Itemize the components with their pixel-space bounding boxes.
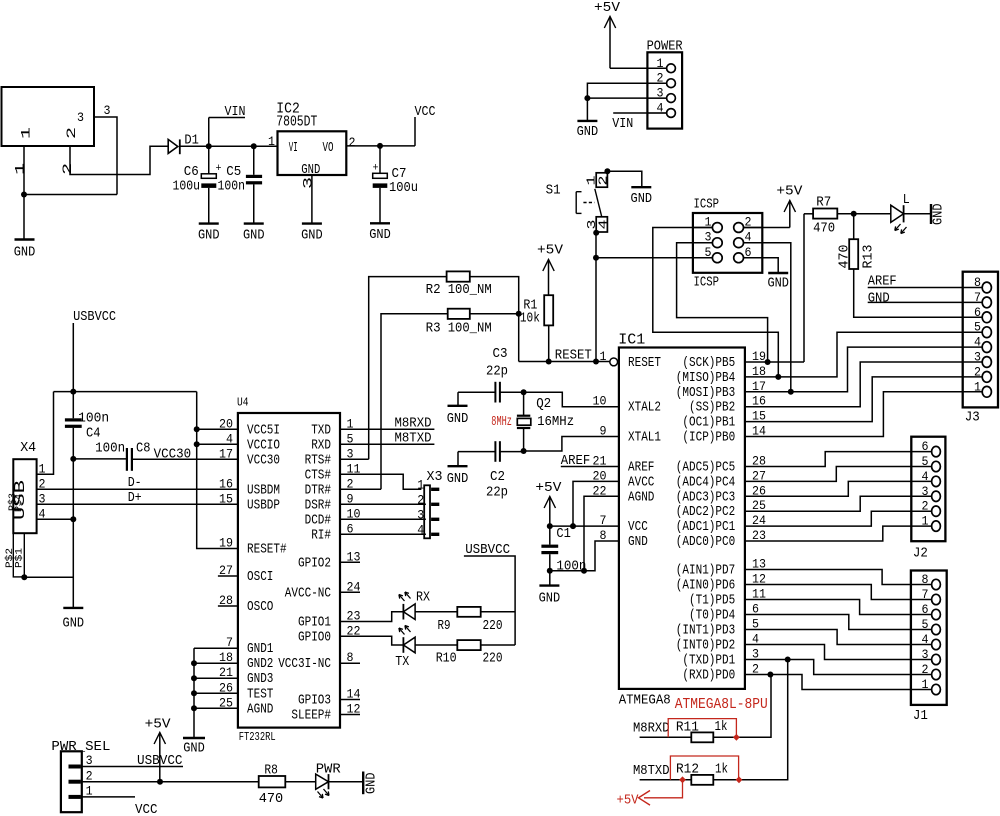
LED PWR — [316, 762, 342, 799]
wire LED L to GND — [904, 213, 931, 215]
power symbol +5V at R1 — [537, 243, 564, 296]
svg-text:TEST: TEST — [247, 687, 273, 702]
svg-text:100_NM: 100_NM — [448, 321, 492, 337]
svg-text:7: 7 — [922, 587, 929, 602]
connector POWER — [647, 39, 684, 129]
junction dot — [785, 657, 791, 663]
wire PWR LED to GND — [329, 781, 364, 783]
svg-text:6: 6 — [974, 305, 981, 320]
wire U4 GND3 — [194, 677, 238, 679]
svg-text:4: 4 — [922, 469, 929, 484]
junction dot — [191, 690, 197, 696]
junction dot — [516, 311, 522, 317]
svg-text:RESET: RESET — [555, 348, 592, 364]
wire U4 GPIO2 stub — [340, 561, 360, 563]
wire XTAL2 node to IC1 pin10 — [524, 392, 619, 407]
connector J3 — [963, 272, 998, 426]
wire U4 AGND — [194, 707, 238, 709]
svg-text:GND: GND — [63, 616, 85, 632]
junction dot — [593, 255, 599, 261]
svg-text:(MOSI)PB3: (MOSI)PB3 — [676, 386, 735, 401]
wire IC1 PD3 to J1 pin4 — [745, 630, 932, 645]
svg-text:5: 5 — [922, 454, 929, 469]
wire R12 to IC1 PD1 — [713, 660, 787, 780]
junction dot — [70, 456, 76, 462]
svg-text:GND: GND — [364, 773, 380, 795]
junction dot — [21, 574, 27, 580]
ground symbol X4 — [63, 607, 83, 609]
svg-text:GND: GND — [243, 228, 265, 244]
junction dot — [547, 523, 553, 529]
svg-text:1: 1 — [922, 677, 929, 692]
wire X4 pin4 to GND rail — [37, 518, 74, 520]
svg-text:100_NM: 100_NM — [448, 282, 492, 298]
svg-text:R2: R2 — [426, 282, 441, 298]
wire U4 TEST — [194, 692, 238, 694]
svg-text:2: 2 — [64, 127, 79, 139]
wire R13 to J3 pin6 — [854, 269, 983, 317]
junction dot — [570, 523, 576, 529]
svg-text:+5V: +5V — [145, 717, 172, 733]
junction dot — [191, 675, 197, 681]
svg-text:(ADC3)PC3: (ADC3)PC3 — [676, 490, 735, 505]
svg-text:8: 8 — [922, 572, 929, 587]
svg-text:GND: GND — [301, 228, 323, 244]
red junction dot — [736, 776, 743, 783]
red jumper wire at R11 — [668, 719, 736, 738]
wire IC1 pin18 MISO to J3 pin5 — [745, 332, 982, 377]
wire ICSP pin2 to +5V — [744, 227, 790, 229]
junction dot — [21, 192, 27, 198]
wire USBVCC gnd rail down — [72, 459, 74, 608]
svg-text:6: 6 — [922, 439, 929, 454]
svg-text:M8TXD: M8TXD — [395, 431, 432, 447]
svg-text:(TXD)PD1: (TXD)PD1 — [682, 654, 735, 669]
svg-text:(T0)PD4: (T0)PD4 — [689, 609, 735, 624]
svg-text:DCD#: DCD# — [305, 513, 331, 528]
wire IC1 VCC pin7 — [550, 525, 619, 527]
wire ICSP pin5 to RESET — [596, 257, 712, 259]
svg-text:RX: RX — [416, 590, 430, 606]
resistor R10 220 — [436, 640, 503, 666]
ground symbol C3 — [447, 392, 469, 427]
svg-text:VO: VO — [323, 141, 334, 156]
wire PWR_SEL pin2 to R8 — [81, 781, 259, 783]
svg-text:7: 7 — [974, 290, 981, 305]
wire R3 to junction — [470, 313, 519, 315]
wire U4 AVCC-NC stub — [340, 591, 360, 593]
svg-text:Q2: Q2 — [536, 396, 551, 412]
net label M8TXD at R12 — [633, 763, 691, 780]
svg-text:1: 1 — [657, 56, 664, 71]
connector J1 — [911, 571, 947, 725]
svg-text:GND: GND — [628, 535, 648, 550]
svg-text:GND: GND — [369, 227, 391, 243]
ground symbol POWER — [577, 120, 597, 122]
wire U4 RI# to X3 pin4 — [340, 533, 426, 535]
svg-text:100u: 100u — [173, 179, 201, 195]
wire U4 gnd rail — [193, 648, 195, 738]
wire +5V to POWER pin1 — [610, 67, 667, 69]
svg-text:3: 3 — [104, 103, 111, 118]
svg-text:3: 3 — [77, 110, 84, 125]
connector X3 — [417, 469, 442, 538]
capacitor C7 100u — [373, 146, 419, 223]
svg-text:GND: GND — [868, 291, 890, 307]
svg-text:(ADC1)PC1: (ADC1)PC1 — [676, 520, 735, 535]
net label M8RXD at U4 TXD — [340, 416, 434, 432]
junction dot — [584, 95, 590, 101]
svg-text:(RXD)PD0: (RXD)PD0 — [682, 669, 735, 684]
svg-text:GND2: GND2 — [247, 657, 273, 672]
ground symbol U4 — [183, 737, 205, 739]
microcontroller IC1 ATMEGA8 — [593, 332, 767, 709]
svg-text:GND: GND — [767, 276, 789, 292]
svg-text:GPIO2: GPIO2 — [298, 556, 331, 571]
svg-text:22: 22 — [593, 483, 607, 498]
svg-text:(T1)PD5: (T1)PD5 — [689, 594, 735, 609]
svg-text:(ADC2)PC2: (ADC2)PC2 — [676, 505, 735, 520]
wire IC1 PC3 to J2 pin4 — [745, 481, 932, 496]
wire SCK rail up to R7 — [803, 214, 805, 362]
svg-text:10: 10 — [593, 394, 607, 409]
svg-text:AVCC-NC: AVCC-NC — [285, 586, 331, 601]
wire U4 DTR# up to R3 — [381, 314, 448, 490]
svg-text:6: 6 — [922, 602, 929, 617]
svg-text:M8RXD: M8RXD — [395, 416, 432, 432]
junction dot S1 top — [604, 168, 610, 174]
svg-text:1: 1 — [417, 477, 424, 492]
resistor R7 470 — [804, 195, 837, 237]
svg-text:D-: D- — [128, 475, 142, 491]
capacitor C5 100n — [218, 146, 263, 223]
wire U4 OSCO stub — [218, 605, 238, 607]
wire D1 to IC2 VI — [181, 145, 278, 147]
svg-text:(INT0)PD2: (INT0)PD2 — [676, 639, 735, 654]
red +5V arrow — [639, 791, 651, 806]
ground symbol ICSP — [768, 272, 788, 274]
wire USBVCC rail to U4 RESET# — [197, 392, 238, 549]
wire X4 shield to GND — [24, 576, 73, 578]
ground symbol (rotated) at PWR LED — [363, 772, 379, 795]
svg-text:USBVCC: USBVCC — [73, 309, 116, 325]
power symbol +5V at PWR_SEL — [145, 717, 172, 782]
svg-text:PWR: PWR — [316, 762, 342, 778]
wire U4 VCC3I-NC stub — [340, 662, 360, 664]
junction dot — [767, 672, 773, 678]
net label VIN — [209, 104, 246, 146]
junction dot — [581, 568, 587, 574]
svg-text:(ICP)PB0: (ICP)PB0 — [682, 431, 735, 446]
wire IC1 pin19 SCK row — [745, 361, 804, 363]
svg-text:(AIN1)PD7: (AIN1)PD7 — [676, 564, 735, 579]
svg-text:16MHz: 16MHz — [537, 414, 574, 430]
svg-text:+5V: +5V — [537, 243, 564, 259]
red jumper wire at R12 — [670, 756, 738, 780]
wire XTAL1 node to IC1 pin9 — [524, 437, 619, 452]
junction dot — [546, 359, 552, 365]
junction dot — [377, 143, 383, 149]
svg-text:4: 4 — [597, 220, 611, 230]
svg-text:8MHz: 8MHz — [491, 414, 512, 430]
power symbol +5V top — [594, 0, 621, 68]
svg-text:(OC1)PB1: (OC1)PB1 — [682, 416, 735, 431]
capacitor C4 100n — [65, 392, 109, 459]
svg-text:J2: J2 — [913, 546, 928, 562]
wire IC2 VO to VCC — [346, 145, 415, 147]
wire R1 to RESET net — [548, 325, 550, 361]
svg-text:GND: GND — [301, 163, 320, 178]
wire U4 RTS# stub — [340, 458, 369, 460]
junction dot — [521, 448, 527, 454]
svg-text:GND: GND — [447, 411, 469, 427]
wire S1 to RESET net — [595, 233, 597, 362]
wire IC1 PD7 to J1 pin8 — [745, 570, 932, 585]
svg-text:VI: VI — [289, 141, 298, 156]
wire X1 junction horizontal — [24, 194, 117, 196]
ground symbol C1 — [539, 584, 559, 586]
junction dot node VIN — [206, 143, 212, 149]
resistor R9 220 — [438, 607, 503, 634]
wire S1 top to GND — [607, 171, 641, 187]
svg-text:VCC5I: VCC5I — [247, 423, 280, 438]
svg-text:3: 3 — [974, 350, 981, 365]
wire U4 VCC5I — [197, 428, 238, 430]
IC1 pin1 inversion circle — [610, 358, 618, 366]
power symbol +5V at ICSP pin2 — [776, 184, 803, 228]
svg-text:100n: 100n — [556, 559, 586, 575]
wire R11 to IC1 PD0 — [713, 675, 771, 738]
svg-text:USBDP: USBDP — [247, 498, 280, 513]
wire RESET net — [519, 361, 610, 363]
svg-text:GPIO0: GPIO0 — [298, 630, 331, 645]
red junction dot — [733, 734, 740, 741]
wire U4 GPIO0 to TX LED — [340, 636, 403, 645]
svg-text:(SCK)PB5: (SCK)PB5 — [682, 356, 735, 371]
svg-text:IC1: IC1 — [618, 332, 645, 349]
wire R9 to USBVCC rail — [481, 611, 515, 613]
svg-text:VIN: VIN — [612, 116, 633, 132]
svg-text:(INT1)PD3: (INT1)PD3 — [676, 624, 735, 639]
svg-text:20: 20 — [593, 468, 607, 483]
wire R2 to RESET net — [470, 277, 519, 362]
svg-text:AGND: AGND — [247, 702, 273, 717]
svg-text:P$1: P$1 — [13, 548, 25, 568]
net label VCC at PWR_SEL pin1 — [81, 797, 158, 816]
svg-text:7: 7 — [600, 513, 607, 528]
svg-text:5: 5 — [922, 617, 929, 632]
connector ICSP — [693, 197, 762, 291]
svg-text:1k: 1k — [715, 719, 728, 735]
svg-text:2: 2 — [974, 364, 981, 379]
svg-text:X4: X4 — [20, 440, 36, 456]
svg-text:AGND: AGND — [628, 490, 654, 505]
svg-text:TXD: TXD — [311, 423, 331, 438]
svg-text:J3: J3 — [965, 410, 980, 426]
svg-text:VCCIO: VCCIO — [247, 438, 280, 453]
LED L — [891, 192, 910, 234]
svg-text:100n: 100n — [78, 411, 109, 427]
wire R10 to USBVCC rail — [481, 644, 515, 646]
wire IC2 pin3 to GND — [311, 175, 313, 224]
svg-text:X3: X3 — [427, 469, 443, 485]
svg-text:GND: GND — [577, 124, 599, 140]
svg-text:(MISO)PB4: (MISO)PB4 — [676, 371, 735, 386]
svg-text:FT232RL: FT232RL — [239, 730, 276, 744]
svg-text:1: 1 — [19, 127, 34, 139]
svg-text:RXD: RXD — [311, 438, 331, 453]
wire IC1 PC4 to J2 pin5 — [745, 467, 932, 482]
svg-text:VIN: VIN — [225, 104, 246, 120]
junction dot — [765, 359, 771, 365]
svg-text:2: 2 — [922, 499, 929, 514]
svg-text:470: 470 — [259, 791, 284, 807]
wire X1 pin1 to GND — [23, 146, 25, 240]
svg-text:D+: D+ — [128, 490, 142, 506]
svg-text:220: 220 — [483, 618, 503, 634]
resistor R2 100_NM — [426, 271, 492, 298]
resistor R11 1k — [676, 719, 728, 742]
LED RX — [399, 590, 431, 620]
svg-text:+5V: +5V — [776, 184, 803, 200]
svg-text:10k: 10k — [520, 311, 540, 327]
wire X4 pin1 to USBVCC rail — [37, 392, 54, 475]
svg-text:9: 9 — [600, 424, 607, 439]
svg-text:(ADC4)PC4: (ADC4)PC4 — [676, 475, 735, 490]
svg-text:470: 470 — [813, 221, 835, 237]
svg-text:R13: R13 — [861, 245, 877, 269]
svg-text:AVCC: AVCC — [628, 475, 654, 490]
junction dot S1 bottom — [593, 230, 599, 236]
junction dot — [194, 426, 200, 432]
svg-text:DTR#: DTR# — [305, 483, 331, 498]
net label VCC — [415, 104, 436, 146]
svg-text:GND3: GND3 — [247, 672, 273, 687]
svg-text:1: 1 — [268, 134, 275, 149]
connector PWR_SEL — [51, 739, 110, 812]
wire IC1 PD1 to J1 pin2 — [745, 660, 932, 675]
svg-text:OSCI: OSCI — [247, 570, 273, 585]
wire IC1 PD4 to J1 pin5 — [745, 615, 932, 630]
svg-text:C1: C1 — [556, 526, 571, 542]
svg-text:+5V: +5V — [535, 480, 562, 496]
wire X1 pin2 to D1 anode — [70, 146, 168, 175]
wire U4 GND2 — [194, 662, 238, 664]
svg-text:(ADC0)PC0: (ADC0)PC0 — [676, 535, 735, 550]
net label USBVCC at PWR_SEL pin3 — [81, 753, 183, 769]
svg-text:7805DT: 7805DT — [276, 114, 317, 131]
junction dot — [788, 389, 794, 395]
wire U4 GND1 — [194, 647, 238, 649]
ground symbol C5 — [244, 222, 264, 224]
wire IC1 PC1 to J2 pin2 — [745, 511, 932, 526]
svg-text:VCC3I-NC: VCC3I-NC — [278, 657, 331, 672]
junction dot — [191, 660, 197, 666]
svg-text:100n: 100n — [218, 179, 246, 195]
ground symbol (rotated) at LED L — [931, 204, 947, 226]
svg-text:4: 4 — [974, 335, 981, 350]
svg-text:VCC: VCC — [135, 802, 158, 816]
svg-text:GND: GND — [14, 245, 36, 261]
switch S1 — [546, 173, 611, 232]
capacitor C8 100n — [73, 441, 150, 471]
svg-text:21: 21 — [593, 454, 607, 469]
junction dot — [775, 374, 781, 380]
net label USBVCC at RX/TX — [464, 542, 515, 645]
wire IC1 pin14 to J3 pin1 — [745, 392, 982, 437]
diode D1 — [168, 132, 199, 154]
svg-text:470: 470 — [837, 245, 853, 269]
svg-text:(ADC5)PC5: (ADC5)PC5 — [676, 461, 735, 476]
svg-text:XTAL1: XTAL1 — [628, 431, 661, 446]
ground symbol C2 — [447, 452, 469, 487]
wire IC1 PD5 to J1 pin6 — [745, 600, 932, 615]
wire ICSP pin3 SCK staircase to IC1 pin19 — [677, 243, 768, 362]
junction dot — [157, 779, 163, 785]
svg-text:C2: C2 — [490, 469, 505, 485]
wire USBVCC rail — [54, 391, 197, 393]
wire IC1 PD6 to J1 pin7 — [745, 585, 932, 600]
svg-text:VCC: VCC — [415, 104, 436, 120]
svg-text:L: L — [903, 192, 910, 208]
svg-text:RESET: RESET — [628, 356, 661, 371]
wire U4 SLEEP# stub — [340, 714, 360, 716]
svg-text:4: 4 — [922, 632, 929, 647]
svg-text:SLEEP#: SLEEP# — [291, 709, 331, 724]
resistor R3 100_NM — [426, 309, 492, 337]
svg-text:C8: C8 — [136, 441, 151, 457]
junction dot — [70, 516, 76, 522]
svg-text:1: 1 — [12, 163, 27, 175]
svg-text:R9: R9 — [438, 618, 451, 634]
connector J2 — [911, 437, 945, 562]
svg-text:(AIN0)PD6: (AIN0)PD6 — [676, 579, 735, 594]
svg-text:RESET#: RESET# — [247, 543, 287, 558]
crystal Q2 16MHz — [517, 392, 574, 451]
svg-text:R8: R8 — [264, 763, 278, 779]
resistor R13 470 (vertical) — [837, 214, 877, 269]
svg-text:8: 8 — [600, 528, 607, 543]
svg-text:R12: R12 — [676, 762, 699, 778]
svg-text:2: 2 — [60, 163, 75, 175]
junction dot — [851, 211, 857, 217]
wire IC1 pin17 MOSI to J3 pin4 — [745, 347, 982, 392]
svg-text:1: 1 — [922, 514, 929, 529]
svg-text:ATMEGA8L-8PU: ATMEGA8L-8PU — [675, 696, 768, 713]
wire C3 to XTAL2 node — [500, 391, 524, 393]
svg-text:3: 3 — [922, 647, 929, 662]
svg-text:RTS#: RTS# — [305, 453, 331, 468]
svg-text:5: 5 — [974, 320, 981, 335]
net label M8RXD at R11 — [633, 721, 691, 738]
net label USBVCC top — [73, 309, 116, 392]
svg-text:R3: R3 — [426, 321, 441, 337]
svg-text:2: 2 — [597, 176, 611, 186]
svg-text:GND: GND — [539, 591, 561, 607]
junction dot — [251, 143, 257, 149]
wire U4 DSR# to X3 pin2 — [340, 503, 426, 505]
wire IC1 GND pin8 — [550, 541, 619, 571]
wire IC1 pin15 to J3 pin2 — [745, 377, 982, 422]
junction dot — [521, 389, 527, 395]
wire IC1 PC0 to J2 pin1 — [745, 526, 932, 541]
junction dot — [191, 705, 197, 711]
svg-text:GPIO1: GPIO1 — [298, 616, 331, 631]
voltage regulator IC2 7805DT — [268, 101, 356, 190]
wire IC1 AGND pin22 — [584, 496, 619, 571]
svg-text:2: 2 — [922, 662, 929, 677]
svg-text:R7: R7 — [816, 195, 831, 211]
